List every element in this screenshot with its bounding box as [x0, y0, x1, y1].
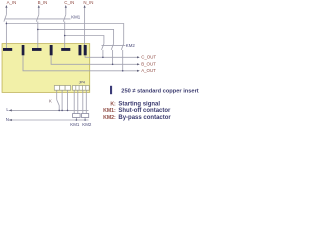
svg-text:N_IN: N_IN: [83, 0, 93, 5]
svg-text:K:: K:: [110, 101, 116, 107]
svg-text:C_OUT: C_OUT: [141, 55, 156, 60]
svg-text:KM1:: KM1:: [103, 108, 116, 114]
svg-text:250 ≠ standard copper insert: 250 ≠ standard copper insert: [121, 88, 199, 94]
svg-text:KM2: KM2: [82, 122, 92, 127]
svg-text:N: N: [6, 117, 9, 122]
svg-text:KM2: KM2: [126, 43, 136, 48]
svg-text:JP4: JP4: [79, 80, 85, 84]
svg-text:By-pass contactor: By-pass contactor: [118, 115, 171, 121]
svg-text:A_IN: A_IN: [7, 0, 17, 5]
svg-text:KM2:: KM2:: [103, 115, 116, 121]
svg-text:B_IN: B_IN: [38, 0, 48, 5]
svg-text:Shut-off contactor: Shut-off contactor: [118, 108, 171, 114]
svg-text:A_OUT: A_OUT: [141, 68, 156, 73]
svg-text:KM1: KM1: [70, 122, 80, 127]
svg-text:KM1: KM1: [71, 14, 81, 19]
svg-text:C_IN: C_IN: [64, 0, 74, 5]
svg-text:K: K: [49, 99, 52, 104]
svg-text:Starting signal: Starting signal: [118, 101, 160, 107]
svg-text:B_OUT: B_OUT: [141, 62, 156, 67]
